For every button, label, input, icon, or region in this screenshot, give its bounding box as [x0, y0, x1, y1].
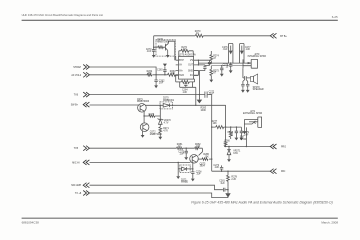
svg-text:10K: 10K [171, 73, 176, 75]
transistor Q272 [190, 155, 199, 164]
footer rule [22, 218, 338, 219]
svg-text:MIC AMP: MIC AMP [71, 184, 81, 187]
svg-text:.1UF: .1UF [209, 94, 215, 96]
wire MIC HI line [90, 161, 191, 163]
svg-text:IN-: IN- [179, 65, 182, 67]
wire Q272 emitter down [192, 162, 194, 169]
dashed box D270 [160, 102, 173, 109]
transistor Q270 symbol [165, 41, 174, 60]
svg-text:SVR: SVR [179, 75, 184, 77]
resistor R271 vertical [159, 124, 162, 135]
capacitor C down to gnd [230, 62, 231, 63]
wire audio out line [198, 62, 243, 64]
svg-text:MMBT3906: MMBT3906 [157, 41, 170, 43]
wire Q271 emitter to Q270b [143, 111, 145, 124]
loop under box [180, 82, 193, 87]
svg-text:TX6: TX6 [74, 95, 79, 97]
capacitor C ext1 [235, 127, 237, 131]
svg-text:OUT: OUT [188, 65, 193, 67]
speaker contact loop 1 [229, 43, 233, 63]
resistor R feedback under box [176, 81, 182, 83]
wire SW B+ line [90, 104, 139, 106]
resistor R274 vertical chain [210, 51, 213, 63]
connector PRG [270, 144, 276, 149]
connector MIC AMP [83, 183, 89, 188]
capacitor C emitter [191, 169, 194, 177]
speaker SP270 [251, 76, 254, 81]
svg-text:AF VOL2: AF VOL2 [71, 74, 81, 77]
wire TX +8 line [90, 193, 229, 198]
svg-text:3904: 3904 [200, 166, 206, 168]
svg-text:U270 AUDIO PA: U270 AUDIO PA [179, 54, 196, 57]
svg-text:IN+: IN+ [179, 70, 183, 72]
ground D271 [176, 175, 180, 179]
resistor R263 [168, 73, 176, 76]
wire J271 sleeve down to ground [243, 120, 245, 130]
wire ext spkr feed [245, 127, 247, 146]
ground below R271 [158, 135, 162, 139]
zener VR271 [227, 147, 231, 158]
connector J270 internal spkr [243, 59, 257, 68]
wire AF VOL2 line [90, 74, 179, 76]
capacitor C272 series [205, 92, 207, 98]
svg-text:Figure 6-25 UHF 435-480 MHz A: Figure 6-25 UHF 435-480 MHz Audio PA and… [191, 201, 333, 205]
resistor R ext2 vertical [229, 127, 232, 139]
connector TX6 [83, 92, 89, 97]
svg-text:C280: C280 [224, 141, 230, 143]
svg-text:INTERNAL SPKR: INTERNAL SPKR [248, 55, 267, 58]
svg-text:March, 2008: March, 2008 [321, 220, 338, 224]
svg-text:MMBD301: MMBD301 [163, 100, 175, 102]
ground Q270 emitter [167, 50, 169, 53]
wire row y127 [212, 126, 242, 128]
capacitor C under box [184, 82, 187, 87]
ground below C270 [152, 53, 156, 57]
wire PRG line [224, 146, 270, 148]
svg-text:MIC HI: MIC HI [72, 162, 80, 164]
wire TX6 line [90, 94, 212, 96]
svg-text:SPKR: SPKR [240, 139, 247, 141]
capacitor C270 [152, 47, 155, 53]
wire MIC AMP line [90, 185, 229, 190]
connector TX5 [83, 146, 89, 151]
svg-text:TX +8: TX +8 [75, 193, 82, 195]
capacitor C ripple2 [198, 60, 209, 62]
svg-text:C263: C263 [157, 69, 163, 71]
wire STRAP line [90, 67, 157, 75]
transistor Q270b lower [140, 123, 149, 132]
svg-text:100K: 100K [201, 110, 207, 112]
U270 right pins [194, 60, 199, 75]
resistor R ext [216, 126, 224, 129]
resistor R270 [195, 34, 203, 37]
resistor R272 top of IC [181, 49, 189, 52]
resistor R interbase [144, 115, 149, 117]
svg-text:.1UF: .1UF [182, 92, 188, 94]
node dots on Q271 line [160, 105, 161, 106]
svg-text:MMBT3906: MMBT3906 [137, 101, 150, 103]
capacitor C ripple1 [198, 65, 205, 67]
svg-text:PRG: PRG [281, 147, 286, 149]
connector BT B+ [270, 33, 276, 38]
node TX6-gnd crossing [199, 94, 200, 95]
svg-text:6881094C38: 6881094C38 [22, 220, 40, 224]
connector STRAP [83, 65, 89, 70]
svg-text:9.6V: 9.6V [233, 153, 238, 155]
capacitor C281 series [223, 188, 225, 192]
U270 pin stubs left verticals [175, 56, 177, 82]
op-amp U270 audio PA box [179, 56, 194, 79]
ground bottom column [225, 193, 230, 197]
resistor drop to PRG line [224, 142, 226, 147]
capacitor C up with inverted ground [163, 69, 166, 75]
svg-text:.1UF: .1UF [196, 174, 202, 176]
resistor R262 [147, 74, 152, 76]
wire loop leg down to Q271 line [193, 87, 196, 105]
capacitor C262 [154, 75, 157, 84]
svg-text:.1UF: .1UF [214, 167, 220, 169]
svg-text:SPEAKER: SPEAKER [253, 88, 264, 91]
ground below Q270b [142, 131, 144, 134]
capacitor C ext2 [240, 127, 242, 131]
wire B+ top rail [154, 35, 271, 37]
diode D270 [163, 104, 169, 108]
transistor Q270 dashed box [156, 40, 175, 56]
connector J271 external jack [244, 117, 261, 127]
wire U270 pin4 down [194, 71, 199, 76]
svg-text:VS: VS [190, 60, 194, 62]
svg-text:.1UF: .1UF [146, 51, 152, 53]
svg-text:R276: R276 [149, 114, 155, 116]
U270 left pins [176, 60, 179, 75]
capacitor C mid to gnd [220, 66, 223, 73]
wire column to ground [227, 187, 229, 194]
node mic amp join [227, 189, 228, 190]
svg-text:MMBD: MMBD [181, 182, 188, 184]
svg-text:10K: 10K [213, 123, 218, 125]
resistor R280 collector right [198, 158, 202, 160]
resistor R275 vertical [210, 66, 213, 78]
svg-text:6-25: 6-25 [332, 15, 338, 19]
speaker SP270 contacts [245, 76, 251, 80]
wire Q271 line right [145, 105, 225, 141]
svg-text:10K: 10K [205, 156, 210, 158]
resistor R mic vertical [227, 171, 230, 186]
ground below R275 [209, 78, 213, 82]
capacitor spkr terminal 1 [241, 80, 244, 89]
svg-text:.1UF: .1UF [223, 49, 229, 51]
svg-text:UHF 438-470 MHz Circuit Board/: UHF 438-470 MHz Circuit Board/Schematic … [22, 13, 104, 17]
diode D271 [178, 162, 193, 174]
capacitor spkr terminal 2 [246, 80, 249, 89]
svg-text:4.7V: 4.7V [164, 122, 169, 124]
ground big IC [194, 71, 205, 100]
node AFV cap-up junction [164, 74, 165, 75]
ground below C262 [154, 84, 158, 88]
resistor R bias [158, 46, 163, 48]
zener VR270 [158, 116, 163, 124]
svg-text:BT B+: BT B+ [280, 36, 287, 38]
resistor R282 on TX5 line [195, 147, 199, 149]
wire TX5 line [90, 148, 203, 155]
svg-text:EXTERNAL SPKR: EXTERNAL SPKR [243, 112, 263, 115]
svg-text:BYP: BYP [179, 60, 184, 62]
svg-text:GND: GND [188, 70, 193, 72]
svg-text:STRAP: STRAP [73, 66, 81, 69]
wire right pin join [197, 60, 199, 65]
svg-text:FC: FC [190, 75, 193, 77]
svg-text:.1UF: .1UF [245, 49, 251, 51]
wire jack to speaker [243, 68, 244, 78]
svg-text:4.7K: 4.7K [163, 130, 168, 132]
wire MIC line [212, 170, 271, 172]
connector AF VOL2 [83, 72, 89, 77]
capacitor C275 to ground [185, 148, 188, 155]
connector MIC [270, 169, 276, 174]
dashed box D271 [180, 165, 190, 173]
connector SW B+ [83, 102, 89, 107]
connector TX +8 [83, 191, 89, 196]
svg-text:.1UF: .1UF [179, 154, 185, 156]
transistor Q271 [138, 104, 147, 113]
capacitor C273 [220, 165, 223, 171]
speaker contact loop 2 [240, 43, 244, 63]
svg-text:SW B+: SW B+ [71, 105, 79, 107]
node STRAP-AFV junction [155, 74, 156, 75]
svg-text:1UF: 1UF [220, 183, 225, 185]
wire bias row [154, 46, 166, 48]
node B+ corner [153, 47, 154, 48]
connector MIC HI [83, 160, 89, 165]
svg-text:2.2K: 2.2K [231, 179, 236, 181]
svg-text:TX5: TX5 [74, 148, 79, 150]
svg-text:MMBT3904: MMBT3904 [150, 134, 163, 136]
svg-text:1UF: 1UF [159, 83, 164, 85]
resistor R281 on TX5 line [177, 147, 183, 149]
header rule [22, 20, 338, 21]
wire out line2 [211, 65, 243, 67]
svg-text:47K: 47K [148, 73, 153, 75]
wire main vertical x211 [211, 95, 213, 172]
node TX5 junction [186, 148, 187, 149]
svg-text:MIC: MIC [281, 171, 286, 173]
wire B+ down leg [153, 36, 155, 47]
